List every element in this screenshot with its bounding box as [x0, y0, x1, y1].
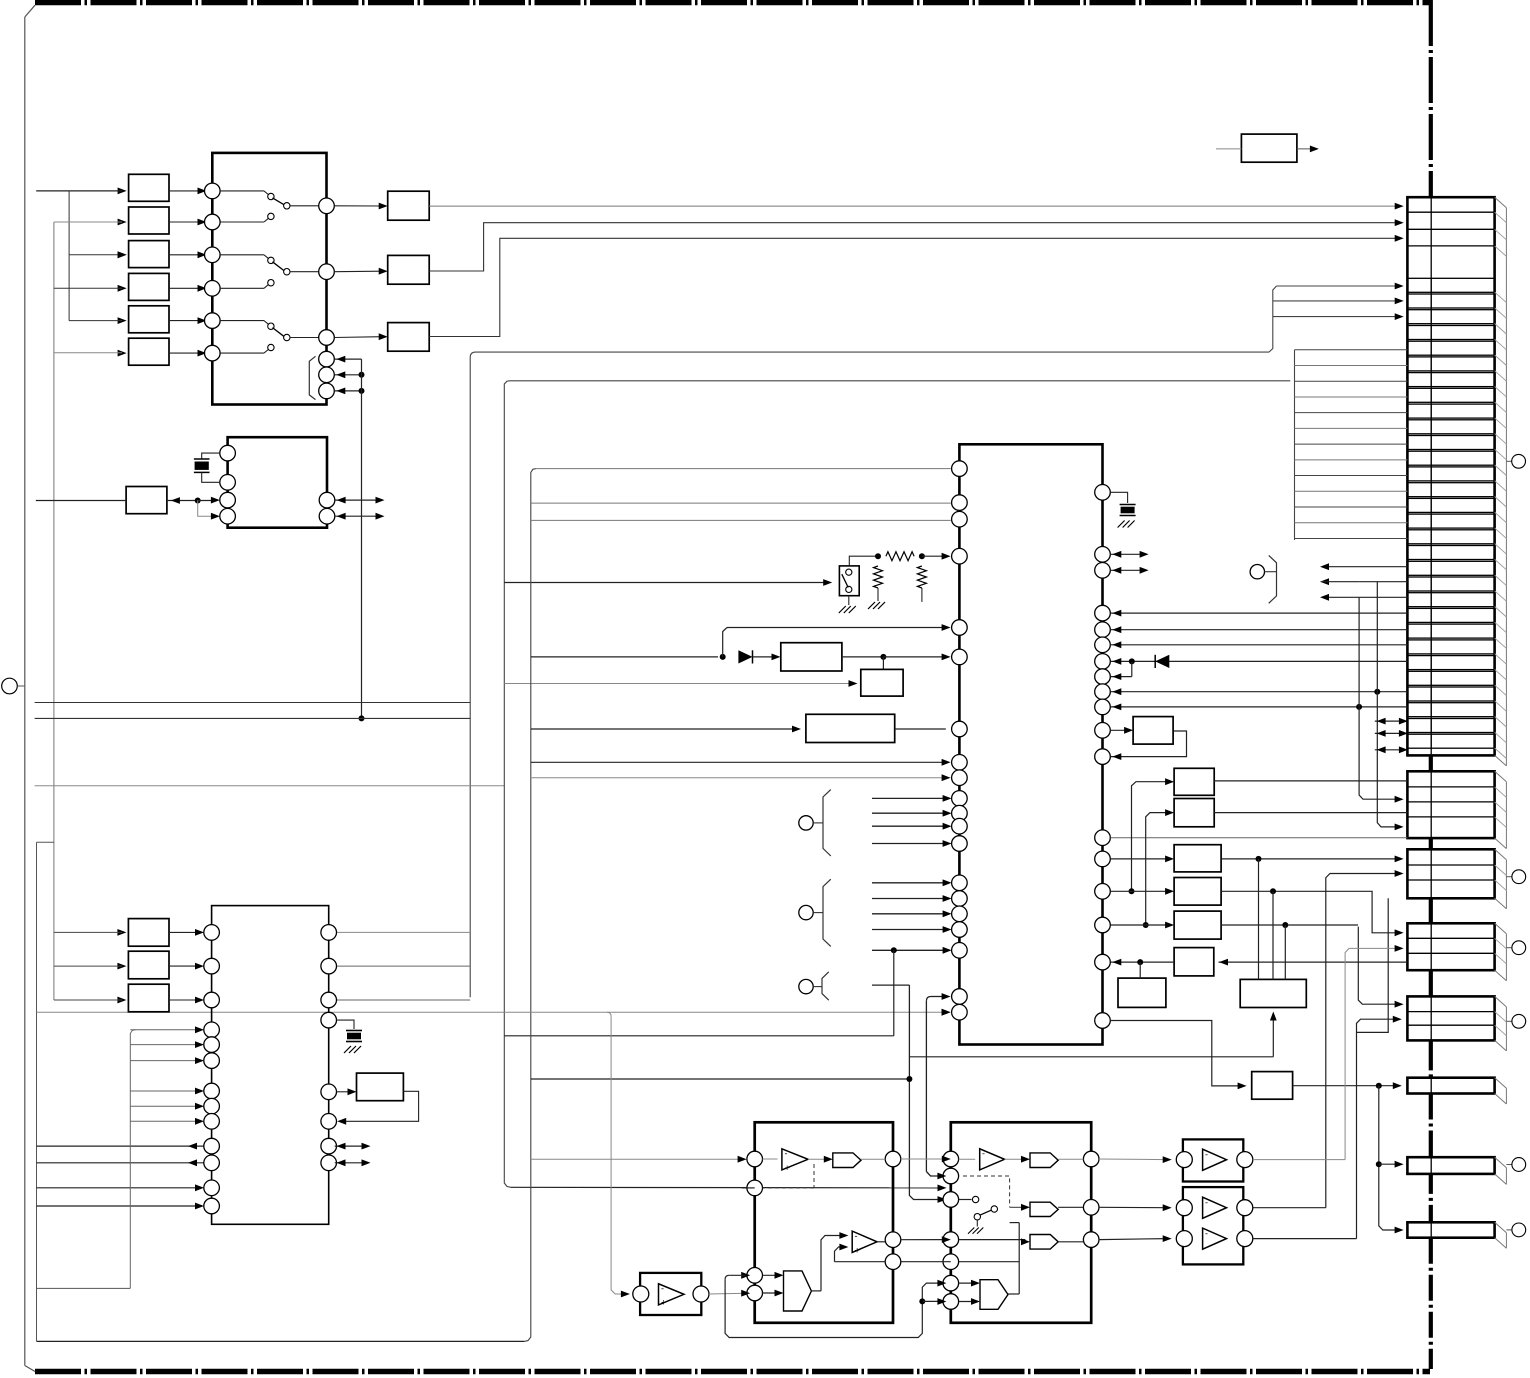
svg-text:-: -: [982, 1149, 985, 1159]
svg-text:+: +: [661, 1298, 666, 1308]
svg-text:+: +: [855, 1246, 860, 1256]
svg-text:-: -: [661, 1284, 664, 1294]
svg-text:-: -: [1205, 1198, 1208, 1208]
svg-text:-: -: [855, 1231, 858, 1241]
svg-text:-: -: [1205, 1150, 1208, 1160]
svg-text:+: +: [785, 1163, 790, 1173]
svg-text:-: -: [785, 1149, 788, 1159]
svg-text:-: -: [1205, 1229, 1208, 1239]
